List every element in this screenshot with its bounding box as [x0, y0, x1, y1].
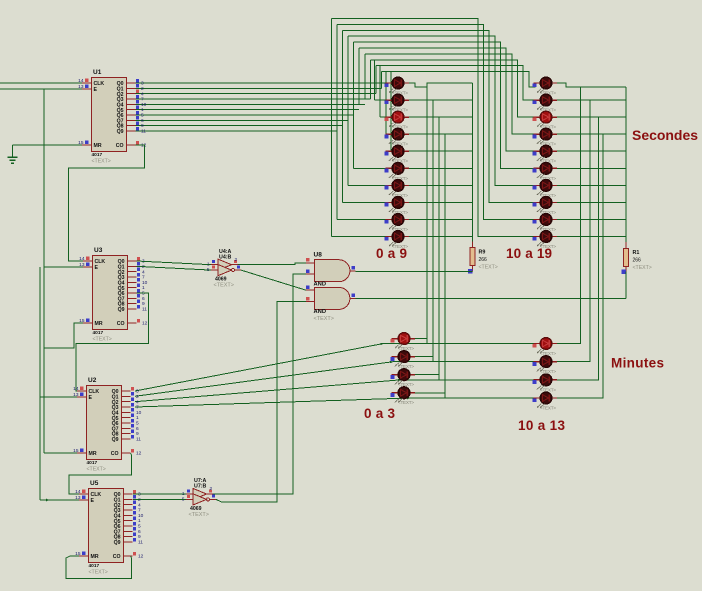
- svg-text:7: 7: [138, 508, 141, 514]
- svg-text:10 a 13: 10 a 13: [518, 418, 565, 433]
- svg-text:U7:B: U7:B: [194, 484, 207, 490]
- svg-text:<TEXT>: <TEXT>: [479, 265, 498, 271]
- wire staircase line 10 to LED column B row 1: [382, 72, 538, 87]
- LED seconds tens B2: [533, 94, 557, 112]
- wire U3 Q1 to U4 input B: [137, 266, 212, 270]
- svg-text:1: 1: [138, 518, 141, 524]
- wire LED A4 right to R9 rail: [409, 133, 472, 135]
- svg-text:U1: U1: [93, 69, 102, 76]
- svg-text:E: E: [89, 395, 93, 401]
- node R1 bottom junction: [622, 270, 626, 274]
- svg-text:6: 6: [141, 118, 144, 124]
- wire LED A9 right to R9 rail: [409, 219, 472, 221]
- wire LED A8 right to R9 rail: [409, 201, 472, 203]
- svg-text:<TEXT>: <TEXT>: [87, 466, 106, 472]
- wire staircase riser 8 to U1 Q3 row: [369, 60, 371, 99]
- resistor R9: [471, 242, 473, 248]
- AND gate U8:A: [306, 252, 356, 288]
- wire rail to U3 MR: [44, 323, 83, 348]
- wire minutes net 1 horizontal: [383, 343, 535, 345]
- wire LED C1 right stub: [415, 338, 427, 340]
- svg-text:6: 6: [142, 296, 145, 302]
- wire U1 Q7 row: [136, 119, 349, 121]
- svg-text:7: 7: [136, 405, 139, 411]
- svg-text:1: 1: [141, 107, 144, 113]
- wire rail to U5 E: [40, 499, 79, 501]
- LED seconds units A4: [385, 128, 409, 146]
- svg-text:<TEXT>: <TEXT>: [189, 512, 209, 518]
- svg-text:AND: AND: [314, 281, 327, 287]
- wire U5 Q1 to U7 input B: [133, 498, 186, 500]
- svg-text:AND: AND: [314, 309, 327, 315]
- wire LED A6 right to R9 rail: [409, 167, 472, 169]
- LED minutes tens D4: [533, 392, 557, 410]
- svg-text:MR: MR: [94, 143, 102, 149]
- svg-text:<TEXT>: <TEXT>: [398, 364, 414, 369]
- svg-text:<TEXT>: <TEXT>: [89, 569, 108, 575]
- wire U2 CO to U5 CLK: [69, 453, 132, 494]
- svg-text:E: E: [91, 498, 95, 504]
- svg-text:<TEXT>: <TEXT>: [540, 351, 556, 356]
- svg-text:12: 12: [142, 321, 148, 327]
- wire U1 Q1 row: [136, 87, 382, 89]
- LED seconds tens B1: [533, 77, 557, 95]
- svg-text:11: 11: [141, 129, 146, 135]
- svg-text:10: 10: [136, 410, 142, 416]
- svg-text:<TEXT>: <TEXT>: [398, 346, 414, 351]
- LED seconds tens B10: [533, 231, 557, 249]
- LED seconds tens B8: [533, 197, 557, 215]
- wire LED C3 right stub: [415, 374, 439, 376]
- svg-text:4017: 4017: [87, 460, 98, 466]
- wire U2 Q2 diagonal to minutes net 3: [135, 380, 401, 402]
- svg-text:0 a 9: 0 a 9: [376, 246, 407, 261]
- wire LED B4 right to R1 rail: [557, 133, 626, 135]
- wire rail to U3 E: [44, 266, 83, 268]
- svg-text:Q9: Q9: [114, 540, 121, 546]
- wire staircase riser 1 feeding LED A10: [330, 19, 332, 237]
- svg-text:11: 11: [142, 307, 147, 313]
- LED minutes tens D3: [533, 374, 557, 392]
- svg-text:9: 9: [138, 534, 141, 540]
- wire U1 MR to ground: [13, 144, 83, 146]
- svg-text:<TEXT>: <TEXT>: [398, 382, 414, 387]
- wire LED A4 feed vertical: [385, 72, 387, 135]
- wire LED C4 right stub: [415, 392, 445, 394]
- wire staircase line 1 to LED column B row 10: [331, 19, 537, 237]
- LED seconds tens B3: [533, 111, 557, 129]
- wire staircase riser 9 to U1 Q2 row: [375, 66, 377, 94]
- svg-text:4: 4: [141, 91, 144, 97]
- svg-text:MR: MR: [91, 554, 99, 560]
- wire LED D3 right to seconds row: [557, 117, 598, 380]
- wire staircase riser 6 to U1 Q4 row: [358, 48, 360, 104]
- wire staircase line 3 to LED column B row 8: [343, 30, 538, 202]
- svg-text:R1: R1: [633, 250, 640, 256]
- svg-text:CO: CO: [116, 143, 124, 149]
- svg-text:9: 9: [136, 431, 139, 437]
- LED seconds tens B6: [533, 162, 557, 180]
- svg-text:1: 1: [142, 285, 145, 291]
- svg-text:<TEXT>: <TEXT>: [633, 265, 652, 271]
- LED minutes units C3: [391, 369, 415, 387]
- svg-text:9: 9: [141, 123, 144, 129]
- svg-text:4017: 4017: [93, 330, 104, 336]
- LED seconds units A6: [385, 162, 409, 180]
- wire AND gate 2 output to R1: [356, 298, 627, 300]
- svg-text:U2: U2: [88, 377, 97, 384]
- wire LED B9 right to R1 rail: [557, 219, 626, 221]
- svg-text:<TEXT>: <TEXT>: [398, 400, 414, 405]
- svg-text:CO: CO: [117, 321, 125, 327]
- wire staircase line 5 to LED column B row 6: [354, 42, 537, 168]
- svg-text:Q9: Q9: [117, 129, 124, 135]
- wire minutes net 2 horizontal: [393, 361, 535, 363]
- wire U3 Q0 to U4 input A: [137, 261, 212, 265]
- wire staircase riser 3 feeding LED A8: [342, 30, 344, 202]
- svg-text:4: 4: [136, 399, 139, 405]
- svg-text:5: 5: [138, 524, 141, 530]
- wire LED B1 right jog: [557, 83, 626, 87]
- svg-text:10: 10: [142, 280, 148, 286]
- LED seconds tens B7: [533, 179, 557, 197]
- svg-text:U3: U3: [94, 247, 103, 254]
- svg-text:U8: U8: [314, 252, 323, 259]
- wire R1 rail vertical: [625, 87, 627, 242]
- LED seconds units A5: [385, 145, 409, 163]
- wire LED A3 right to R9 rail: [409, 116, 472, 118]
- svg-text:3: 3: [138, 492, 141, 498]
- LED minutes units C2: [391, 351, 415, 369]
- wire rail to U2 E: [40, 396, 77, 398]
- wire staircase line 9 to LED column B row 2: [376, 66, 537, 100]
- svg-text:2: 2: [235, 257, 238, 263]
- svg-text:4: 4: [142, 269, 145, 275]
- wire minutes net 3 horizontal: [401, 379, 535, 381]
- svg-text:266: 266: [633, 258, 642, 264]
- wire U5 Q0 to U7 input A: [133, 493, 186, 495]
- svg-text:MR: MR: [95, 321, 103, 327]
- wire U1 Q0 to LED A1 and R9 rail: [136, 82, 387, 84]
- wire LED B6 right to R1 rail: [557, 167, 626, 169]
- svg-text:Minutes: Minutes: [611, 356, 664, 371]
- svg-text:CO: CO: [111, 451, 119, 457]
- wire LED B2 right to R1 rail: [557, 99, 626, 101]
- wire staircase riser 7 to U1 Q3 row: [364, 54, 366, 99]
- svg-text:E: E: [95, 265, 99, 271]
- wire rail to U2 MR: [44, 452, 77, 454]
- wire LED A5 right to R9 rail: [409, 150, 472, 152]
- LED seconds units A9: [385, 214, 409, 232]
- svg-text:6: 6: [138, 529, 141, 535]
- svg-text:12: 12: [136, 451, 142, 457]
- wire LED A5 feed vertical: [390, 72, 392, 152]
- wire LED D1 right to seconds row: [557, 87, 580, 344]
- svg-text:7: 7: [142, 275, 145, 281]
- LED minutes units C1: [391, 333, 415, 351]
- svg-text:10 a 19: 10 a 19: [506, 246, 552, 261]
- wire U2 Q0 diagonal to minutes net 1: [135, 344, 383, 392]
- svg-text:0 a 3: 0 a 3: [364, 406, 395, 421]
- wire R1 to AND gate 2 output: [625, 272, 627, 299]
- wire LED B3 right to R1 rail: [557, 116, 626, 118]
- wire staircase riser 2 feeding LED A9: [336, 24, 338, 219]
- wire input to U1 E: [0, 88, 82, 90]
- wire U4 output B diagonal to AND gate 2 input: [241, 270, 306, 290]
- LED seconds units A3: [385, 111, 409, 129]
- svg-text:U5: U5: [90, 480, 99, 487]
- svg-text:12: 12: [138, 554, 144, 560]
- LED seconds units A1: [385, 77, 409, 95]
- svg-text:5: 5: [142, 291, 145, 297]
- svg-text:<TEXT>: <TEXT>: [93, 336, 112, 342]
- svg-text:2: 2: [210, 486, 213, 492]
- svg-text:R9: R9: [479, 250, 486, 256]
- svg-text:Q9: Q9: [112, 437, 119, 443]
- LED minutes tens D1: [533, 338, 557, 356]
- svg-text:<TEXT>: <TEXT>: [214, 283, 234, 289]
- wire rail E/MR left vertical: [43, 89, 45, 453]
- svg-text:Secondes: Secondes: [632, 127, 698, 143]
- wire U1 Q8 row: [136, 125, 343, 127]
- svg-text:3: 3: [136, 389, 139, 395]
- wire U1 Q9 row: [136, 130, 338, 132]
- wire minutes feed vertical 4: [444, 134, 446, 398]
- wire LED B7 right to R1 rail: [557, 184, 626, 186]
- LED seconds tens B9: [533, 214, 557, 232]
- svg-text:5: 5: [136, 421, 139, 427]
- counter U2 (4017): [73, 377, 142, 472]
- wire LED B5 right to R1 rail: [557, 150, 626, 152]
- wire U1 Q3 row: [136, 98, 371, 100]
- wire clock input to U1 CLK: [0, 82, 82, 84]
- wire staircase riser 8 to U1 Q2 row: [369, 60, 371, 94]
- svg-text:4: 4: [138, 502, 141, 508]
- svg-text:1: 1: [136, 415, 139, 421]
- wire LED A7 right to R9 rail: [409, 184, 472, 186]
- wire staircase riser 4 feeding LED A7: [347, 36, 349, 185]
- wire U2 Q3 diagonal to minutes net 4: [135, 398, 410, 407]
- svg-text:CO: CO: [113, 554, 121, 560]
- wire AND gate 1 output to R9 junction: [356, 270, 473, 272]
- wire U2 Q1 diagonal to minutes net 2: [135, 362, 393, 397]
- AND gate U8:B: [306, 286, 356, 322]
- LED seconds units A10: [385, 231, 409, 249]
- svg-text:5: 5: [141, 113, 144, 119]
- svg-text:4017: 4017: [89, 563, 100, 569]
- wire U1 Q2 row: [136, 93, 377, 95]
- wire LED D2 right to seconds row: [557, 100, 590, 362]
- LED seconds units A2: [385, 94, 409, 112]
- svg-text:12: 12: [141, 143, 147, 149]
- wire staircase line 8 to LED column B row 3: [370, 60, 537, 117]
- LED seconds units A7: [385, 179, 409, 197]
- svg-text:266: 266: [479, 257, 488, 263]
- wire U1 Q5 row: [136, 109, 360, 111]
- svg-text:9: 9: [142, 301, 145, 307]
- counter U5 (4017): [75, 480, 144, 575]
- node R9 bottom junction: [468, 269, 472, 273]
- svg-text:<TEXT>: <TEXT>: [540, 369, 556, 374]
- wire LED B10 right to R1 rail: [557, 236, 626, 238]
- wire LED B8 right to R1 rail: [557, 201, 626, 203]
- wire U5 MR reset loop: [66, 556, 132, 579]
- wire U4 output A to AND gate 1 input: [238, 263, 306, 265]
- wire U1 Q4 row: [136, 103, 365, 105]
- wire U7 output B to AND gate 2 lower input: [216, 302, 306, 503]
- svg-text:2: 2: [141, 86, 144, 92]
- svg-text:2: 2: [136, 394, 139, 400]
- resistor R1: [625, 242, 627, 248]
- svg-text:<TEXT>: <TEXT>: [314, 316, 334, 322]
- wire U1 Q6 row: [136, 114, 354, 116]
- wire U3 Q6 to U2 CLK: [76, 293, 149, 391]
- svg-text:<TEXT>: <TEXT>: [540, 387, 556, 392]
- wire LED C2 right stub: [415, 356, 433, 358]
- svg-text:<TEXT>: <TEXT>: [540, 406, 556, 411]
- svg-text:6: 6: [136, 426, 139, 432]
- counter U1 (4017): [78, 69, 147, 164]
- svg-text:7: 7: [141, 97, 144, 103]
- ground: [12, 145, 14, 157]
- wire minutes feed vertical 2: [432, 100, 434, 362]
- wire staircase line 6 to LED column B row 5: [359, 48, 537, 151]
- svg-text:11: 11: [138, 540, 143, 546]
- wire LED A10 right to R9 rail: [409, 236, 472, 238]
- wire R9 rail vertical: [471, 83, 473, 242]
- wire rail 2 vertical: [39, 267, 41, 500]
- svg-text:10: 10: [141, 102, 147, 108]
- svg-text:Q9: Q9: [118, 307, 125, 313]
- wire minutes feed vertical 3: [438, 117, 440, 380]
- LED minutes tens D2: [533, 356, 557, 374]
- wire U7 output A to AND gate 1 lower input: [213, 274, 306, 494]
- inverter U7 (4069 pair): [182, 478, 216, 518]
- LED minutes units C4: [391, 387, 415, 405]
- svg-text:11: 11: [136, 437, 141, 443]
- LED seconds tens B5: [533, 145, 557, 163]
- wire staircase line 4 to LED column B row 7: [348, 36, 537, 185]
- wire staircase riser 10 to U1 Q1 row: [381, 72, 383, 89]
- counter U3 (4017): [79, 247, 148, 342]
- wire U1 CO to U3 CLK: [68, 145, 144, 261]
- svg-text:3: 3: [141, 81, 144, 87]
- LED seconds units A8: [385, 197, 409, 215]
- wire minutes net 4 horizontal: [410, 397, 535, 399]
- wire LED D4 right to seconds row: [557, 134, 603, 398]
- wire minutes feed vertical 1: [426, 87, 428, 344]
- wire staircase riser 5 feeding LED A6: [353, 42, 355, 168]
- svg-text:MR: MR: [89, 451, 97, 457]
- wire LED A3 feed vertical: [379, 66, 381, 117]
- wire LED A2 right to R9 rail: [409, 99, 472, 101]
- wire LED A2 feed vertical: [374, 60, 376, 100]
- svg-text:<TEXT>: <TEXT>: [92, 158, 111, 164]
- inverter U4 (4069 pair): [207, 249, 241, 289]
- LED seconds tens B4: [533, 128, 557, 146]
- svg-text:10: 10: [138, 513, 144, 519]
- svg-text:E: E: [94, 87, 98, 93]
- wire staircase line 7 to LED column B row 4: [365, 54, 537, 134]
- svg-text:4017: 4017: [92, 152, 103, 158]
- wire staircase line 2 to LED column B row 9: [337, 24, 537, 219]
- svg-text:U4:B: U4:B: [219, 254, 232, 260]
